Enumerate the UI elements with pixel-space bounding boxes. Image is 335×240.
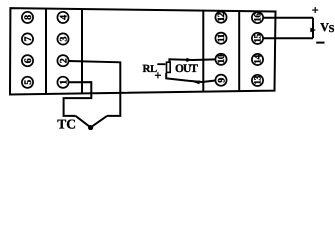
- pin number 5: [23, 80, 34, 85]
- terminal 11: [215, 33, 226, 44]
- wire resistor bottom to terminal 9: [166, 73, 215, 82]
- svg-text:TC: TC: [57, 117, 76, 130]
- arrow at VS: [310, 28, 316, 33]
- svg-text:11: 11: [216, 33, 227, 42]
- arrow on OUT top wire: [186, 58, 192, 62]
- svg-text:8: 8: [23, 15, 34, 20]
- wire resistor top to terminal 10: [169, 59, 215, 62]
- pin number 14: [253, 55, 264, 64]
- svg-text:5: 5: [23, 80, 34, 85]
- socket outline: [10, 8, 276, 94]
- svg-text:16: 16: [253, 13, 264, 22]
- pin number 12: [216, 12, 227, 21]
- label minus at VS: [316, 42, 324, 44]
- pin number 10: [216, 54, 227, 63]
- pin number 2: [58, 58, 69, 63]
- divider right block left edge: [202, 11, 204, 92]
- svg-text:13: 13: [253, 75, 264, 84]
- svg-text:3: 3: [58, 37, 69, 42]
- label minus at RL: [157, 63, 165, 65]
- svg-text:9: 9: [216, 78, 227, 83]
- wire terminal 16 to VS plus: [263, 17, 313, 19]
- divider left strip: [45, 9, 47, 94]
- pin number 7: [23, 37, 34, 42]
- terminal 1: [57, 77, 68, 88]
- terminal 16: [252, 12, 263, 23]
- svg-text:12: 12: [216, 12, 227, 21]
- terminal 8: [22, 12, 33, 23]
- terminal 7: [22, 33, 33, 44]
- svg-text:4: 4: [58, 15, 69, 20]
- wire terminal 2 to TC right lead: [69, 61, 121, 116]
- terminal 13: [252, 75, 263, 86]
- svg-text:1: 1: [58, 80, 69, 85]
- pin number 16: [253, 13, 264, 22]
- terminal 14: [252, 54, 263, 65]
- pin number 4: [58, 15, 69, 20]
- terminal 4: [57, 12, 68, 23]
- terminal 2: [57, 55, 68, 66]
- divider right block middle: [238, 11, 240, 91]
- svg-text:15: 15: [253, 33, 264, 42]
- terminal 15: [252, 33, 263, 44]
- pin number 6: [23, 58, 34, 63]
- wire terminal 15 to VS minus: [263, 37, 313, 39]
- pin number 11: [216, 33, 227, 42]
- svg-text:+: +: [312, 3, 319, 17]
- VS battery vertical: [312, 18, 314, 39]
- terminal 10: [215, 54, 226, 65]
- terminal 6: [22, 55, 33, 66]
- pin number 13: [253, 75, 264, 84]
- divider left block right edge: [81, 9, 83, 93]
- terminal 5: [22, 77, 33, 88]
- pin number 1: [58, 80, 69, 85]
- TC left diagonal: [76, 116, 91, 128]
- svg-text:6: 6: [23, 58, 34, 63]
- pin number 3: [58, 37, 69, 42]
- svg-text:7: 7: [23, 37, 34, 42]
- wire TC left lead to terminal 1: [64, 82, 92, 116]
- pin number 15: [253, 33, 264, 42]
- resistor RL body: [167, 62, 171, 72]
- terminal 3: [57, 33, 68, 44]
- svg-text:2: 2: [58, 58, 69, 63]
- svg-text:OUT: OUT: [175, 63, 198, 75]
- terminal 12: [215, 12, 226, 23]
- svg-text:+: +: [154, 69, 161, 83]
- svg-text:10: 10: [216, 54, 227, 63]
- svg-text:14: 14: [253, 55, 264, 64]
- pin number 8: [23, 15, 34, 20]
- svg-text:S: S: [329, 24, 335, 35]
- TC right diagonal: [91, 116, 107, 128]
- terminal 9: [215, 75, 226, 86]
- pin number 9: [216, 78, 227, 83]
- arrow on OUT bottom wire: [194, 80, 200, 84]
- TC junction dot: [88, 125, 93, 130]
